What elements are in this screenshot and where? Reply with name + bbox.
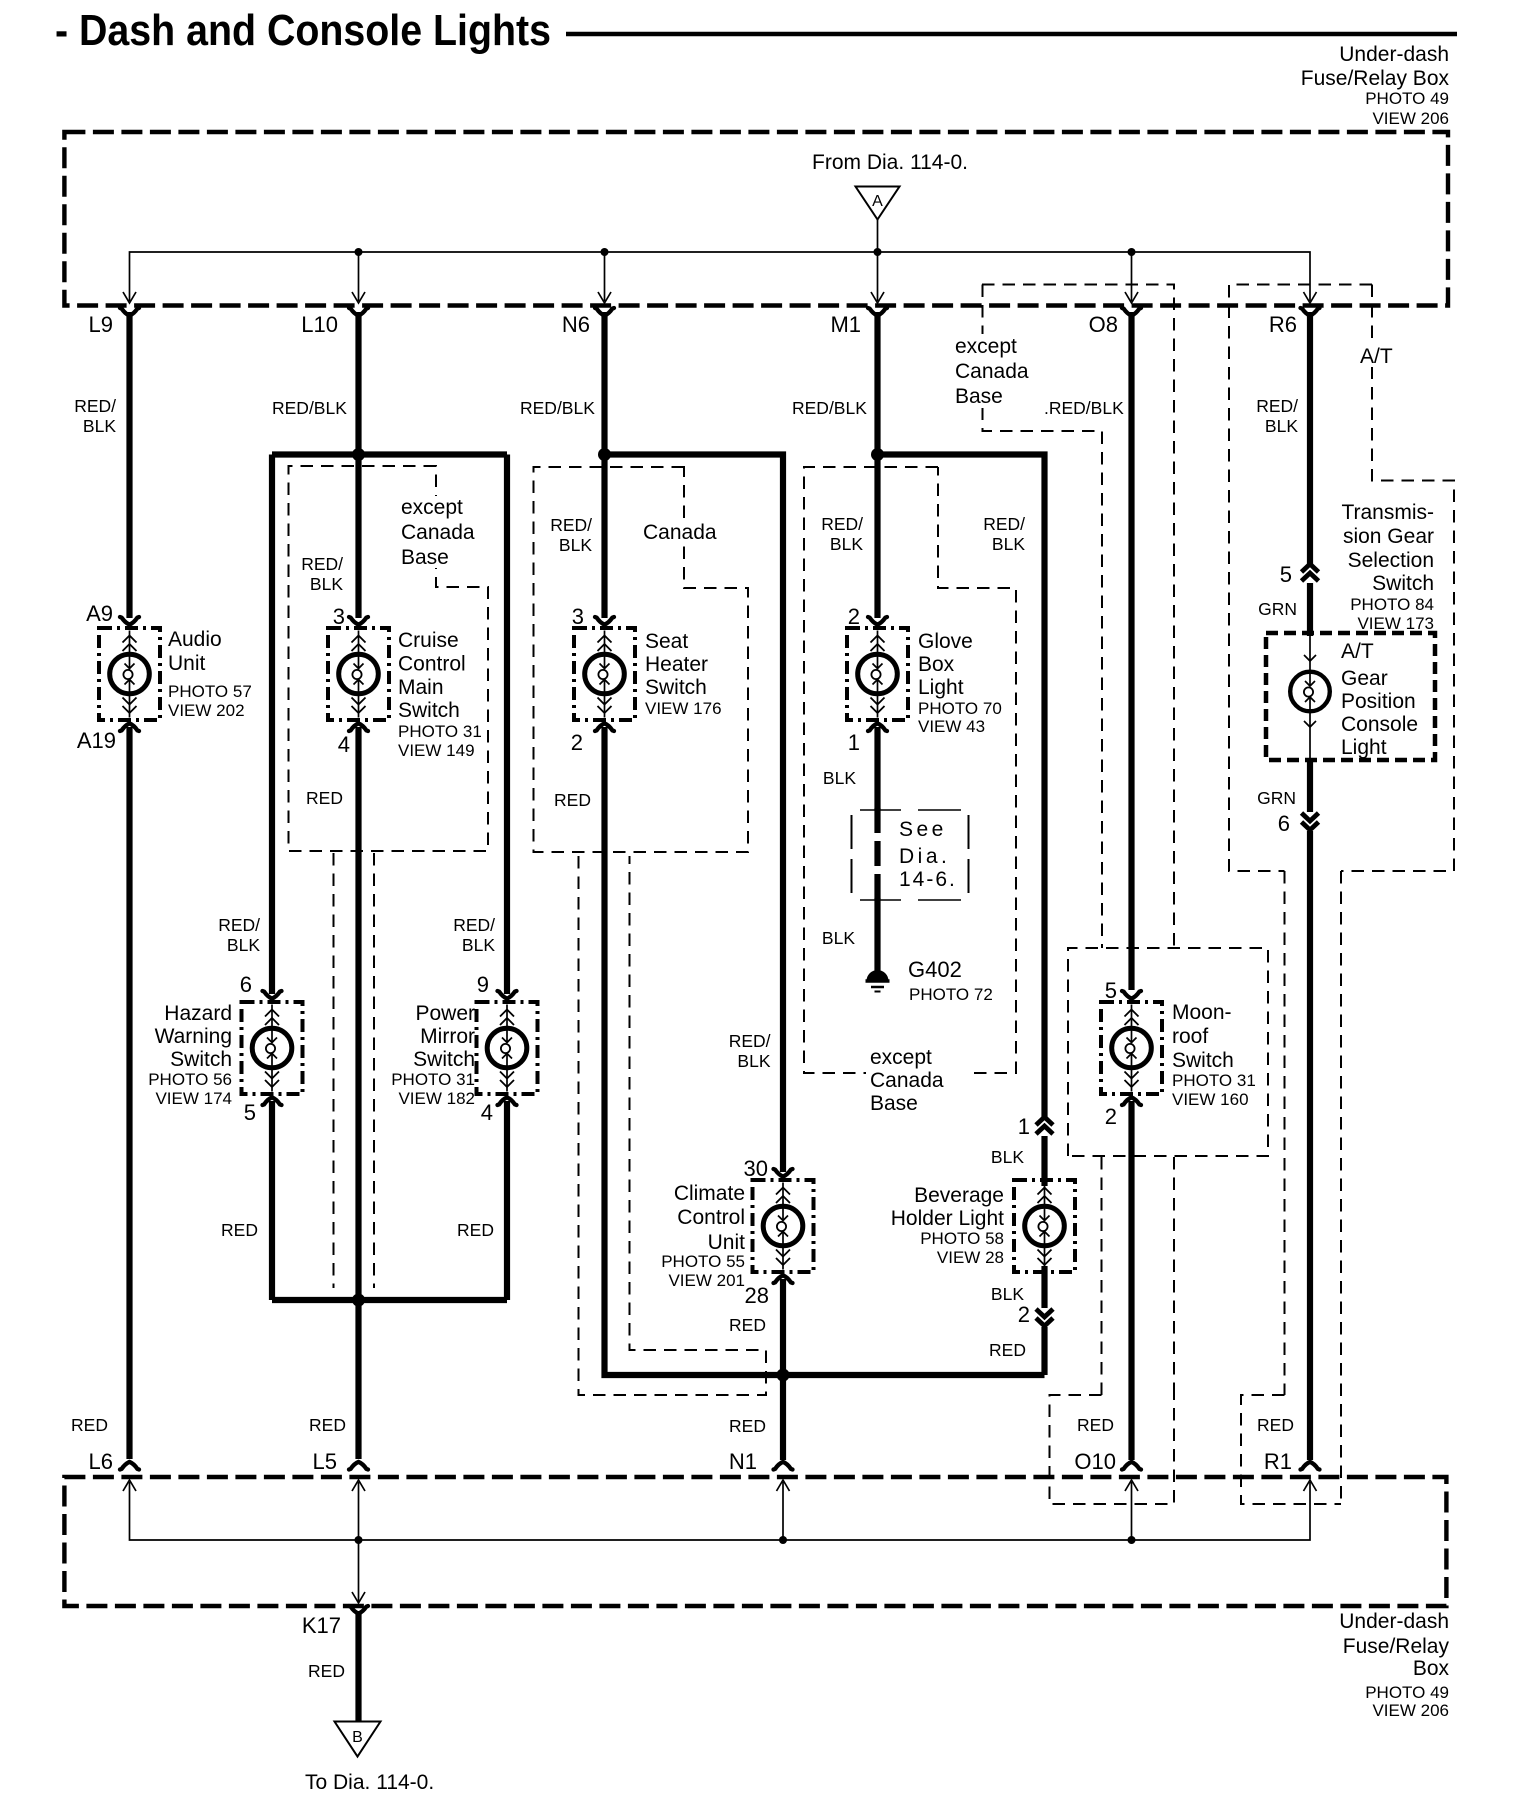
wire K17 (RED) [355,1611,361,1721]
bus wire inside fuse box [130,252,1311,301]
svg-text:RED/BLK: RED/BLK [520,398,595,418]
svg-text:Box: Box [918,653,955,676]
svg-text:Selection: Selection [1348,549,1434,572]
svg-text:3: 3 [333,604,345,629]
power mirror switch lamp [477,1002,538,1094]
label RED/BLK (climate branch) [821,514,863,554]
svg-text:RED: RED [989,1340,1026,1360]
svg-text:RED/: RED/ [218,915,260,935]
svg-text:1: 1 [1018,1114,1030,1139]
svg-text:A19: A19 [77,728,116,753]
svg-text:RED: RED [457,1220,494,1240]
svg-text:L9: L9 [89,312,113,337]
svg-text:2: 2 [571,730,583,755]
svg-text:Control: Control [677,1206,745,1229]
svg-text:BLK: BLK [227,935,260,955]
label overlay: except Canada Base (O8) [947,334,1041,408]
svg-text:BLK: BLK [1265,416,1298,436]
except Canada Base dashed region (O8) [982,285,1174,949]
svg-text:sion Gear: sion Gear [1343,525,1434,548]
svg-text:Light: Light [918,676,964,699]
svg-text:RED: RED [221,1220,258,1240]
Canada dashed region [534,467,749,852]
svg-text:RED: RED [1077,1415,1114,1435]
wire N6 column upper [601,312,607,455]
svg-text:RED: RED [308,1661,345,1681]
svg-text:GRN: GRN [1257,788,1296,808]
svg-text:Base: Base [401,546,449,569]
svg-text:BLK: BLK [830,534,863,554]
wire inside A/T box [1309,635,1311,671]
svg-text:RED/BLK: RED/BLK [792,398,867,418]
label RED/BLK (beverage branch) [983,514,1025,554]
svg-text:RED/: RED/ [301,554,343,574]
label: Under-dash Fuse/Relay Box (top right) [1301,43,1450,128]
svg-text:PHOTO 55: PHOTO 55 [661,1252,745,1271]
connector caps below fuse box [120,308,139,316]
svg-text:RED: RED [309,1415,346,1435]
label RED/BLK (cruise) [301,554,343,594]
svg-text:14-6.: 14-6. [899,868,957,891]
svg-text:PHOTO 31: PHOTO 31 [391,1070,475,1089]
svg-text:6: 6 [1278,811,1290,836]
bus stub N6 [604,252,606,301]
dashed corridor below cruise region [333,853,335,1288]
hazard warning switch lamp [242,1002,303,1094]
audio unit U1 lamp [99,628,160,720]
svg-text:- Dash and Console Lights: - Dash and Console Lights [55,6,551,55]
svg-text:Main: Main [398,676,444,699]
svg-text:BLK: BLK [992,534,1025,554]
label RED/BLK (seat heater) [550,515,592,555]
svg-text:GRN: GRN [1258,599,1297,619]
svg-text:Canada: Canada [401,521,475,544]
svg-text:BLK: BLK [823,768,856,788]
svg-text:roof: roof [1172,1025,1208,1048]
svg-text:Switch: Switch [1372,572,1434,595]
svg-text:RED: RED [729,1416,766,1436]
svg-text:L10: L10 [301,312,338,337]
svg-text:M1: M1 [830,312,861,337]
svg-text:A: A [872,193,883,210]
svg-text:Cruise: Cruise [398,629,459,652]
svg-text:RED/: RED/ [729,1031,771,1051]
svg-text:Seat: Seat [645,630,688,653]
svg-text:A9: A9 [86,601,113,626]
wire glove box to ground (BLK) [874,727,880,810]
svg-text:Dia.: Dia. [899,845,950,868]
wire mirror branch lower (RED) [504,1101,510,1300]
svg-text:3: 3 [572,604,584,629]
svg-text:VIEW 202: VIEW 202 [168,701,245,720]
svg-text:Audio: Audio [168,628,222,651]
label: Under-dash Fuse/Relay Box (bottom right) [1339,1610,1449,1720]
svg-text:Power: Power [415,1002,475,1025]
label RED/BLK (mirror) [453,915,495,955]
svg-text:RED/: RED/ [1256,396,1298,416]
svg-text:RED: RED [554,790,591,810]
connector labels top row [89,312,1297,337]
svg-text:BLK: BLK [310,574,343,594]
arrow leaving bottom box at K17 [352,1592,365,1603]
climate control unit lamp [753,1180,814,1272]
connector triangle B [335,1722,381,1757]
beverage holder light lamp [1014,1180,1075,1272]
junction dots on bus [355,248,363,256]
wire R6 GRN upper [1307,583,1313,636]
wire N6 to seat heater switch [601,455,607,619]
bus stub O8 [1131,252,1133,301]
ground G402 [867,970,889,981]
svg-text:Switch: Switch [170,1048,232,1071]
connector caps above bottom fuse box [120,1462,139,1470]
svg-text:L5: L5 [313,1449,337,1474]
arrows at box edge [123,292,136,303]
svg-text:VIEW 174: VIEW 174 [155,1089,232,1108]
svg-text:Switch: Switch [398,699,460,722]
svg-text:4: 4 [338,732,350,757]
label: Climate Control Unit PHOTO 55 VIEW 201 [661,1182,745,1290]
under-dash fuse/relay box (bottom, dashed) [64,1477,1446,1606]
svg-text:2: 2 [1105,1104,1117,1129]
glove box light lamp [847,628,908,720]
svg-text:9: 9 [477,972,489,997]
svg-text:Moon-: Moon- [1172,1001,1232,1024]
label: Hazard Warning Switch PHOTO 56 VIEW 174 [148,1002,232,1108]
label overlay: except Canada Base (cruise) [396,496,484,569]
wire hazard branch upper [269,455,275,995]
svg-text:PHOTO 57: PHOTO 57 [168,682,252,701]
svg-text:O8: O8 [1089,312,1118,337]
label RED/BLK (climate branch) [729,1031,771,1071]
wire R6 to R1 (RED) [1307,831,1313,1460]
svg-text:Under-dash: Under-dash [1339,43,1449,66]
bus stub M1 [877,252,879,301]
svg-text:Mirror: Mirror [420,1025,475,1048]
wire climate to N1 junction [780,1279,786,1460]
svg-text:except: except [955,335,1017,358]
svg-text:PHOTO 70: PHOTO 70 [918,699,1002,718]
seat heater switch lamp [574,628,635,720]
svg-text:Holder Light: Holder Light [891,1207,1004,1230]
svg-text:R6: R6 [1269,312,1297,337]
svg-text:Warning: Warning [155,1025,232,1048]
wire merge of hazard/cruise/mirror [272,1297,507,1303]
under-dash fuse/relay box (top, dashed) [64,132,1448,306]
except Canada Base dashed region (M1) [804,467,938,1073]
svg-text:Beverage: Beverage [914,1184,1004,1207]
cruise control main switch lamp [328,628,389,720]
title rule line [566,32,1457,37]
svg-text:O10: O10 [1074,1449,1116,1474]
svg-text:Heater: Heater [645,653,708,676]
label RED/BLK (hazard) [218,915,260,955]
svg-text:BLK: BLK [822,928,855,948]
svg-text:VIEW 43: VIEW 43 [918,717,985,736]
svg-text:BLK: BLK [991,1284,1024,1304]
svg-text:Control: Control [398,653,466,676]
svg-text:K17: K17 [302,1613,341,1638]
wire L9 column lower (RED) [126,727,132,1459]
connector triangle A [856,187,900,220]
wire branch N6 to climate control [605,455,784,1173]
arrows entering bottom box [123,1480,136,1491]
svg-text:Gear: Gear [1341,667,1388,690]
svg-text:VIEW 28: VIEW 28 [937,1248,1004,1267]
See Dia. 14-6. dashed box [851,815,853,895]
wire branch to hazard and power mirror switches [272,451,507,457]
A/T gear position console light box [1266,633,1435,760]
svg-text:A/T: A/T [1360,345,1393,368]
svg-text:Fuse/Relay Box: Fuse/Relay Box [1301,67,1450,90]
wire cruise to merge (RED) [355,727,361,1300]
svg-text:RED/: RED/ [453,915,495,935]
svg-text:Position: Position [1341,690,1416,713]
svg-text:Switch: Switch [413,1048,475,1071]
svg-text:5: 5 [1105,978,1117,1003]
wire O8 column [1128,312,1134,990]
svg-text:RED: RED [729,1315,766,1335]
svg-text:Console: Console [1341,713,1418,736]
svg-text:VIEW 201: VIEW 201 [668,1271,745,1290]
svg-text:PHOTO 49: PHOTO 49 [1365,89,1449,108]
svg-text:BLK: BLK [559,535,592,555]
svg-text:Canada: Canada [643,521,717,544]
svg-text:Hazard: Hazard [164,1002,232,1025]
wire R6 GRN lower [1307,760,1313,812]
svg-text:PHOTO 58: PHOTO 58 [920,1229,1004,1248]
svg-text:N1: N1 [729,1449,757,1474]
wire M1 to glove box light [874,455,880,619]
svg-text:Transmis-: Transmis- [1341,501,1434,524]
svg-text:To Dia. 114-0.: To Dia. 114-0. [305,1771,434,1794]
svg-text:PHOTO 31: PHOTO 31 [1172,1071,1256,1090]
svg-text:RED: RED [306,788,343,808]
wire from triangle A to bus [877,220,879,253]
svg-text:L6: L6 [89,1449,113,1474]
label: Transmission Gear Selection Switch PHOTO 84 VIEW 173 [1341,501,1434,633]
svg-text:6: 6 [240,972,252,997]
svg-text:except: except [401,496,463,519]
svg-text:5: 5 [244,1100,256,1125]
svg-text:except: except [870,1046,932,1069]
svg-text:30: 30 [744,1156,768,1181]
svg-text:VIEW 206: VIEW 206 [1372,109,1449,128]
wire L10 column upper [355,312,361,455]
svg-text:RED/: RED/ [550,515,592,535]
svg-text:2: 2 [1018,1302,1030,1327]
svg-text:RED/: RED/ [821,514,863,534]
svg-text:G402: G402 [908,957,962,982]
wire to ground G402 (BLK) [874,898,880,972]
bus stub L10 [358,252,360,301]
label overlay: Canada [638,519,730,544]
bus wire inside bottom box [130,1482,1311,1540]
svg-text:VIEW 160: VIEW 160 [1172,1090,1249,1109]
svg-text:Under-dash: Under-dash [1339,1610,1449,1633]
svg-text:See: See [899,818,947,841]
except Canada Base dashed region (cruise) [289,466,489,851]
wire L9 column upper (RED/BLK) [126,312,132,618]
svg-text:Climate: Climate [674,1182,745,1205]
svg-text:Unit: Unit [168,652,206,675]
svg-text:Base: Base [870,1092,918,1115]
svg-text:RED: RED [1257,1415,1294,1435]
svg-text:2: 2 [848,604,860,629]
label RED/BLK (L9) [74,396,116,436]
svg-text:Box: Box [1413,1657,1450,1680]
svg-text:BLK: BLK [83,416,116,436]
svg-text:R1: R1 [1264,1449,1292,1474]
svg-text:Switch: Switch [645,676,707,699]
wire beverage into box [1041,1136,1047,1186]
svg-text:RED/: RED/ [983,514,1025,534]
wire branch M1 to beverage holder [878,455,1045,1121]
wire beverage to merge [1041,1327,1047,1375]
svg-text:PHOTO 56: PHOTO 56 [148,1070,232,1089]
wire hazard branch lower (RED) [269,1101,275,1300]
svg-text:BLK: BLK [462,935,495,955]
dashed corridor below moonroof [1101,1157,1103,1395]
svg-text:Canada: Canada [870,1069,944,1092]
svg-text:Glove: Glove [918,630,973,653]
label overlay: A/T [1352,342,1404,368]
svg-text:BLK: BLK [737,1051,770,1071]
wire seat heater down (RED) [605,727,1045,1375]
wire R6 column upper [1307,312,1313,566]
wire L10 to L5 [355,1300,361,1459]
svg-text:Canada: Canada [955,360,1029,383]
dashed corridor O10 bottom [1050,1395,1175,1504]
svg-text:B: B [352,1729,363,1746]
svg-text:PHOTO 72: PHOTO 72 [909,985,993,1004]
A/T console light lamp [1290,672,1330,712]
svg-text:VIEW 149: VIEW 149 [398,741,475,760]
svg-text:.RED/BLK: .RED/BLK [1044,398,1124,418]
connector labels bottom row [89,1449,1292,1474]
svg-text:28: 28 [745,1283,769,1308]
wire M1 column upper [874,312,880,455]
svg-text:VIEW 206: VIEW 206 [1372,1701,1449,1720]
svg-text:A/T: A/T [1341,640,1374,663]
svg-text:PHOTO 31: PHOTO 31 [398,722,482,741]
svg-text:RED/BLK: RED/BLK [272,398,347,418]
svg-text:4: 4 [481,1100,493,1125]
svg-text:Base: Base [955,385,1003,408]
svg-text:VIEW 176: VIEW 176 [645,699,722,718]
wire dashed through See Dia box [874,808,880,902]
A/T dashed region [1229,285,1372,872]
svg-text:1: 1 [848,730,860,755]
svg-text:5: 5 [1280,562,1292,587]
label: Beverage Holder Light PHOTO 58 VIEW 28 [891,1184,1004,1267]
svg-text:RED/: RED/ [74,396,116,416]
wire L10 center to cruise switch [355,455,361,619]
svg-text:BLK: BLK [991,1147,1024,1167]
svg-text:PHOTO 84: PHOTO 84 [1350,595,1434,614]
svg-text:PHOTO 49: PHOTO 49 [1365,1683,1449,1702]
moonroof dashed region [1068,948,1268,1156]
moonroof switch lamp [1101,1002,1162,1094]
svg-text:N6: N6 [562,312,590,337]
label: Power Mirror Switch PHOTO 31 VIEW 182 [391,1002,475,1108]
svg-text:Unit: Unit [708,1231,746,1254]
dashed corridor climate branch [579,856,767,1395]
svg-text:VIEW 173: VIEW 173 [1357,614,1434,633]
wire beverage out of box (BLK) [1041,1266,1047,1308]
svg-text:Fuse/Relay: Fuse/Relay [1343,1635,1450,1658]
svg-text:Switch: Switch [1172,1049,1234,1072]
svg-text:RED: RED [71,1415,108,1435]
svg-text:Light: Light [1341,736,1387,759]
label RED/BLK (R6) [1256,396,1298,436]
wire power mirror branch upper [504,455,510,995]
wire moonroof to O10 (RED) [1128,1101,1134,1460]
svg-text:From Dia. 114-0.: From Dia. 114-0. [812,151,968,174]
svg-text:VIEW 182: VIEW 182 [398,1089,475,1108]
